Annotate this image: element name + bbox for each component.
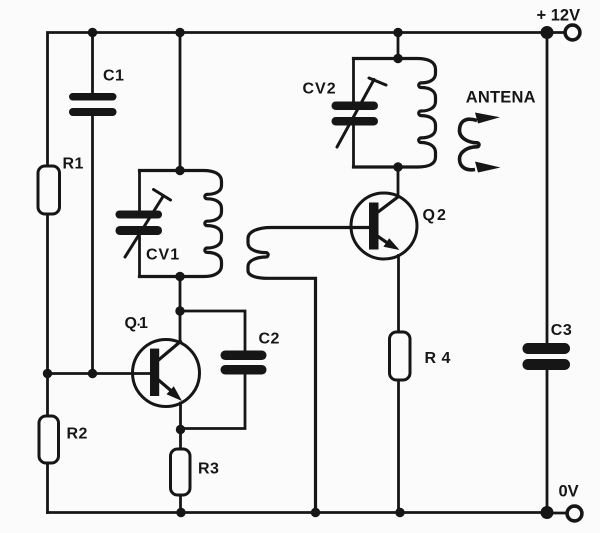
svg-text:0V: 0V: [559, 483, 579, 501]
svg-text:C1: C1: [103, 68, 124, 85]
svg-text:CV2: CV2: [303, 81, 337, 98]
svg-text:CV1: CV1: [146, 246, 180, 263]
svg-text:R2: R2: [67, 426, 88, 443]
svg-text:R1: R1: [63, 155, 84, 172]
svg-text:+ 12V: + 12V: [537, 7, 581, 25]
svg-text:1: 1: [139, 315, 148, 332]
svg-text:R 4: R 4: [425, 350, 451, 367]
svg-text:Q2: Q2: [423, 207, 448, 224]
svg-text:Q: Q: [125, 315, 138, 332]
svg-text:ANTENA: ANTENA: [466, 89, 536, 107]
svg-text:C3: C3: [551, 322, 572, 339]
svg-text:C2: C2: [259, 331, 280, 348]
svg-text:R3: R3: [198, 461, 219, 478]
